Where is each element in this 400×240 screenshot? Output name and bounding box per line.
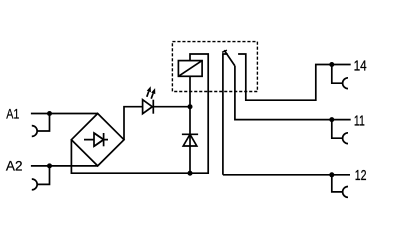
svg-text:12: 12 <box>355 167 367 184</box>
bridge rectifier diamond <box>71 114 124 166</box>
bridge inner diode <box>84 133 108 146</box>
contact lever tick <box>222 50 227 52</box>
terminal clamp 12 <box>332 175 343 192</box>
terminal clamp 11 <box>332 120 343 139</box>
contact NO fixed contact (to 14) <box>238 54 351 100</box>
terminal clamp A1 <box>37 114 49 132</box>
node A2 junction dot <box>47 163 52 168</box>
wire LED to coil junction <box>153 106 190 108</box>
node terminal 12 dot <box>329 172 334 177</box>
wire coil bottom lead <box>189 76 191 106</box>
svg-text:A2: A2 <box>6 158 23 174</box>
wire common pole to terminal 11 <box>235 66 351 120</box>
node coil/diode junction dot <box>188 104 193 109</box>
svg-text:11: 11 <box>354 112 365 129</box>
node terminal 14 dot <box>329 62 334 67</box>
node terminal 11 dot <box>329 117 334 122</box>
relay coil K1 <box>178 61 202 77</box>
svg-text:14: 14 <box>354 57 367 74</box>
relay boundary dashed box <box>172 42 257 92</box>
node freewheel bottom junction dot <box>188 171 193 176</box>
node A1 junction dot <box>47 111 52 116</box>
wire bridge right corner up to LED line <box>124 107 143 140</box>
svg-text:A1: A1 <box>6 107 19 123</box>
terminal clamp 14 <box>332 65 343 84</box>
wire NC to terminal 12 <box>223 174 350 176</box>
wire A2 to bridge bottom corner <box>31 165 98 167</box>
LED emission arrows <box>147 92 153 99</box>
terminal clamp A2 <box>37 166 49 185</box>
wire coil top lead, return to bridge left corner <box>71 54 208 173</box>
LED D1 <box>143 100 154 114</box>
contact NC fixed contact (to 12) <box>223 54 228 175</box>
wire A1 to bridge top corner <box>31 113 98 115</box>
diode D2 freewheel <box>182 107 198 174</box>
contact movable lever (to 11) <box>224 50 235 66</box>
